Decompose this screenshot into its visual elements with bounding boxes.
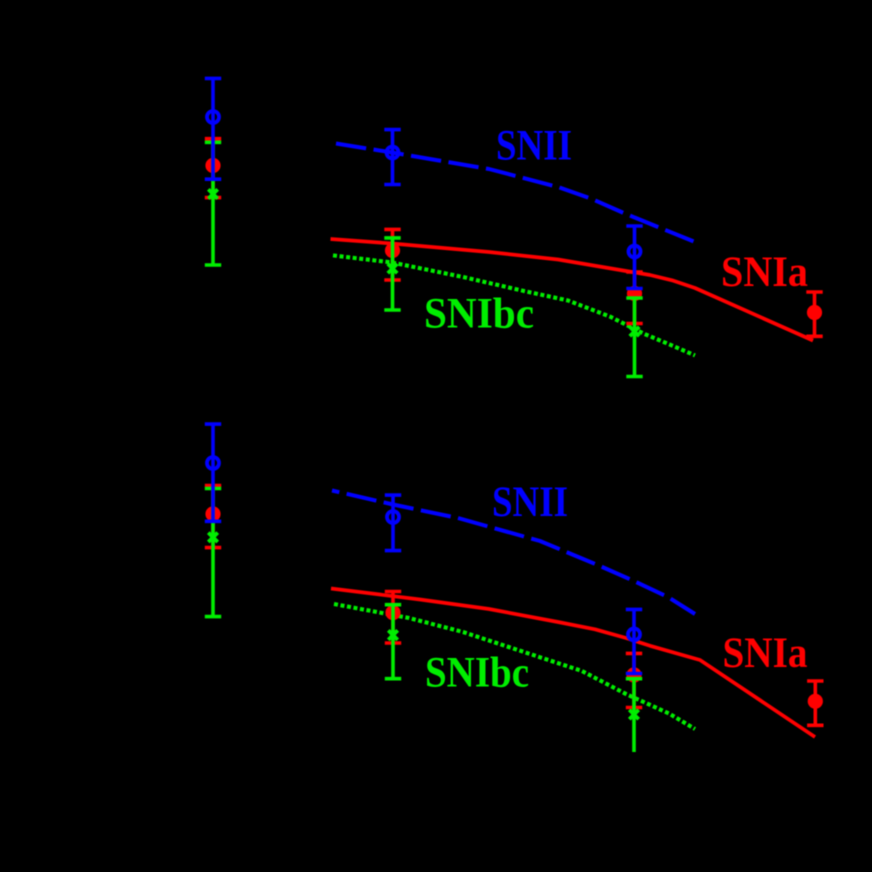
svg-text:SNII: SNII bbox=[492, 479, 568, 526]
svg-text:SNIbc: SNIbc bbox=[424, 291, 534, 338]
svg-text:SNIbc: SNIbc bbox=[425, 650, 529, 697]
svg-text:SNIa: SNIa bbox=[721, 249, 808, 296]
svg-text:SNIa: SNIa bbox=[723, 630, 808, 677]
svg-text:SNII: SNII bbox=[496, 123, 572, 170]
